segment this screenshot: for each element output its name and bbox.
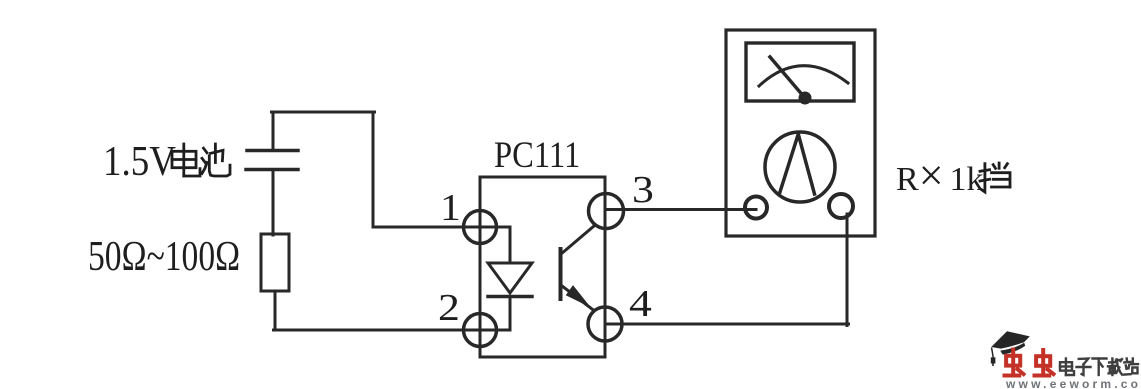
LED D1 inside optocoupler: [488, 227, 532, 330]
label R×1k: [896, 150, 984, 201]
pin 2: [464, 314, 497, 347]
wire bottom horizontal to pin 2: [274, 329, 511, 332]
wire pin 3 to multimeter: [606, 208, 756, 211]
wire into pin 1: [373, 226, 510, 229]
multimeter left terminal: [745, 197, 767, 219]
wire battery top riser: [272, 114, 275, 150]
label PC111: [494, 134, 580, 177]
label pin 3: [632, 168, 654, 212]
resistor R1 (50Ω~100Ω): [261, 234, 289, 291]
pin 4: [588, 307, 622, 341]
wire pin 4 to the right: [605, 323, 849, 326]
battery B1 (1.5V): [246, 151, 298, 170]
pin 1: [464, 211, 497, 244]
pin 3: [589, 194, 624, 229]
multimeter display window: [746, 43, 854, 101]
wire top horizontal: [272, 111, 375, 114]
multimeter dial pointer: [780, 135, 815, 194]
multimeter scale arc: [759, 66, 848, 86]
label 1.5V: [103, 138, 176, 186]
label pin 1: [440, 186, 461, 230]
label pin 4: [629, 282, 652, 326]
logo url www.eeworm.com: [1006, 377, 1141, 389]
multimeter right terminal: [829, 194, 853, 218]
wire battery bottom riser: [272, 171, 275, 235]
multimeter M1 case: [726, 30, 875, 236]
wire resistor bottom riser: [274, 291, 277, 330]
multimeter needle pivot: [799, 92, 812, 105]
label 50Ω~100Ω: [88, 233, 240, 281]
optocoupler U1 PC111 body: [480, 177, 605, 357]
multimeter range dial: [765, 132, 835, 202]
wire right drop to pin 1: [372, 112, 375, 227]
label pin 2: [438, 286, 460, 330]
phototransistor Q1 inside optocoupler: [561, 226, 595, 309]
wire multimeter right terminal drop: [846, 214, 849, 326]
multimeter needle: [770, 57, 805, 98]
